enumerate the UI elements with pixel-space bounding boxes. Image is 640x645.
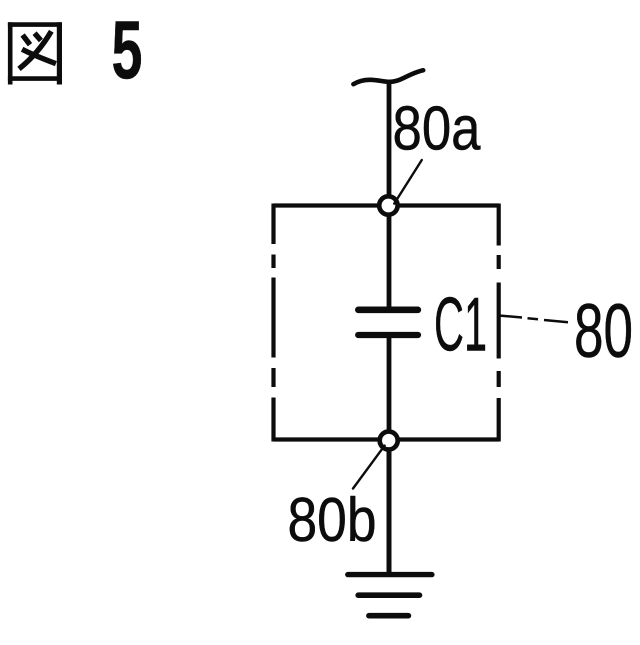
capacitor C1 bottom plate (358, 332, 418, 338)
ground symbol (348, 575, 432, 616)
leader from box to label 80 (dash-dot) (499, 316, 568, 323)
capacitor C1 top plate (358, 306, 418, 313)
svg-text:80: 80 (574, 289, 633, 374)
node 80a (circle junction, white filled) (379, 196, 397, 214)
figure label "図" (drawn kanji) (8, 22, 62, 84)
box 80: right edge (dashed) (497, 204, 501, 442)
wire break squiggle at top (353, 70, 423, 84)
svg-text:80a: 80a (393, 95, 481, 164)
wire: node A to capacitor top plate (387, 205, 392, 307)
node 80b (circle junction, white filled) (380, 432, 398, 450)
leader line for 80a (394, 160, 422, 204)
svg-text:5: 5 (112, 3, 143, 96)
wire: top vertical segment (387, 80, 392, 200)
wire: capacitor bottom plate to node B (387, 337, 392, 440)
box 80: bottom edge (solid) (274, 437, 499, 441)
leader line for 80b (353, 446, 385, 489)
box 80: top edge (solid) (274, 203, 499, 207)
svg-text:C1: C1 (434, 283, 487, 368)
wire: node B to ground (387, 441, 392, 574)
box 80: left edge (dashed) (271, 204, 275, 442)
svg-text:80b: 80b (288, 485, 377, 555)
